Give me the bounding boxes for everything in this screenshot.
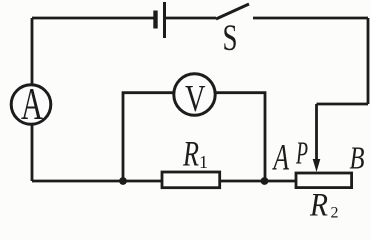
svg-text:P: P xyxy=(295,136,308,171)
wire: jog left toward wiper xyxy=(317,103,369,106)
arrowhead of wiper P onto rheostat xyxy=(313,159,321,172)
ammeter A circle xyxy=(11,85,51,125)
battery cell: long thin plate (positive) xyxy=(163,2,166,38)
junction node left (voltmeter tap) xyxy=(119,177,127,185)
wire: right vertical down from top-right corner xyxy=(367,18,370,104)
svg-text:A: A xyxy=(21,79,43,129)
wire: left vertical from top corner down to ammeter xyxy=(31,18,34,84)
svg-text:S: S xyxy=(223,17,238,58)
switch S blade (open, angled up) xyxy=(216,4,249,19)
resistor R1 box xyxy=(162,172,220,188)
wire: R1 to right junction xyxy=(220,180,265,183)
svg-text:2: 2 xyxy=(331,205,339,220)
svg-text:V: V xyxy=(185,78,206,120)
wire: wiper stem down to arrowhead xyxy=(315,104,318,161)
svg-text:R: R xyxy=(182,134,199,174)
voltmeter V circle xyxy=(174,74,215,115)
wire: voltmeter branch right horizontal and vertical xyxy=(216,93,265,181)
wire: bottom horizontal from left corner to R1 xyxy=(32,180,162,183)
wire: voltmeter branch left vertical and horizontal xyxy=(123,93,173,181)
wire: junction to rheostat R2 xyxy=(265,180,295,183)
svg-text:R: R xyxy=(309,188,328,220)
rheostat R2 box xyxy=(296,173,352,188)
svg-text:B: B xyxy=(350,141,365,176)
svg-text:1: 1 xyxy=(199,152,208,172)
wire: battery to switch left contact xyxy=(165,17,216,20)
wire: switch right contact to top-right corner xyxy=(253,17,368,20)
wire: top-left horizontal from corner to battery xyxy=(32,17,155,20)
battery cell: short thick plate (negative) xyxy=(153,11,157,29)
svg-text:A: A xyxy=(272,137,289,178)
wire: ammeter bottom to bottom-left corner xyxy=(31,125,34,181)
junction node right (node A) xyxy=(261,177,269,185)
